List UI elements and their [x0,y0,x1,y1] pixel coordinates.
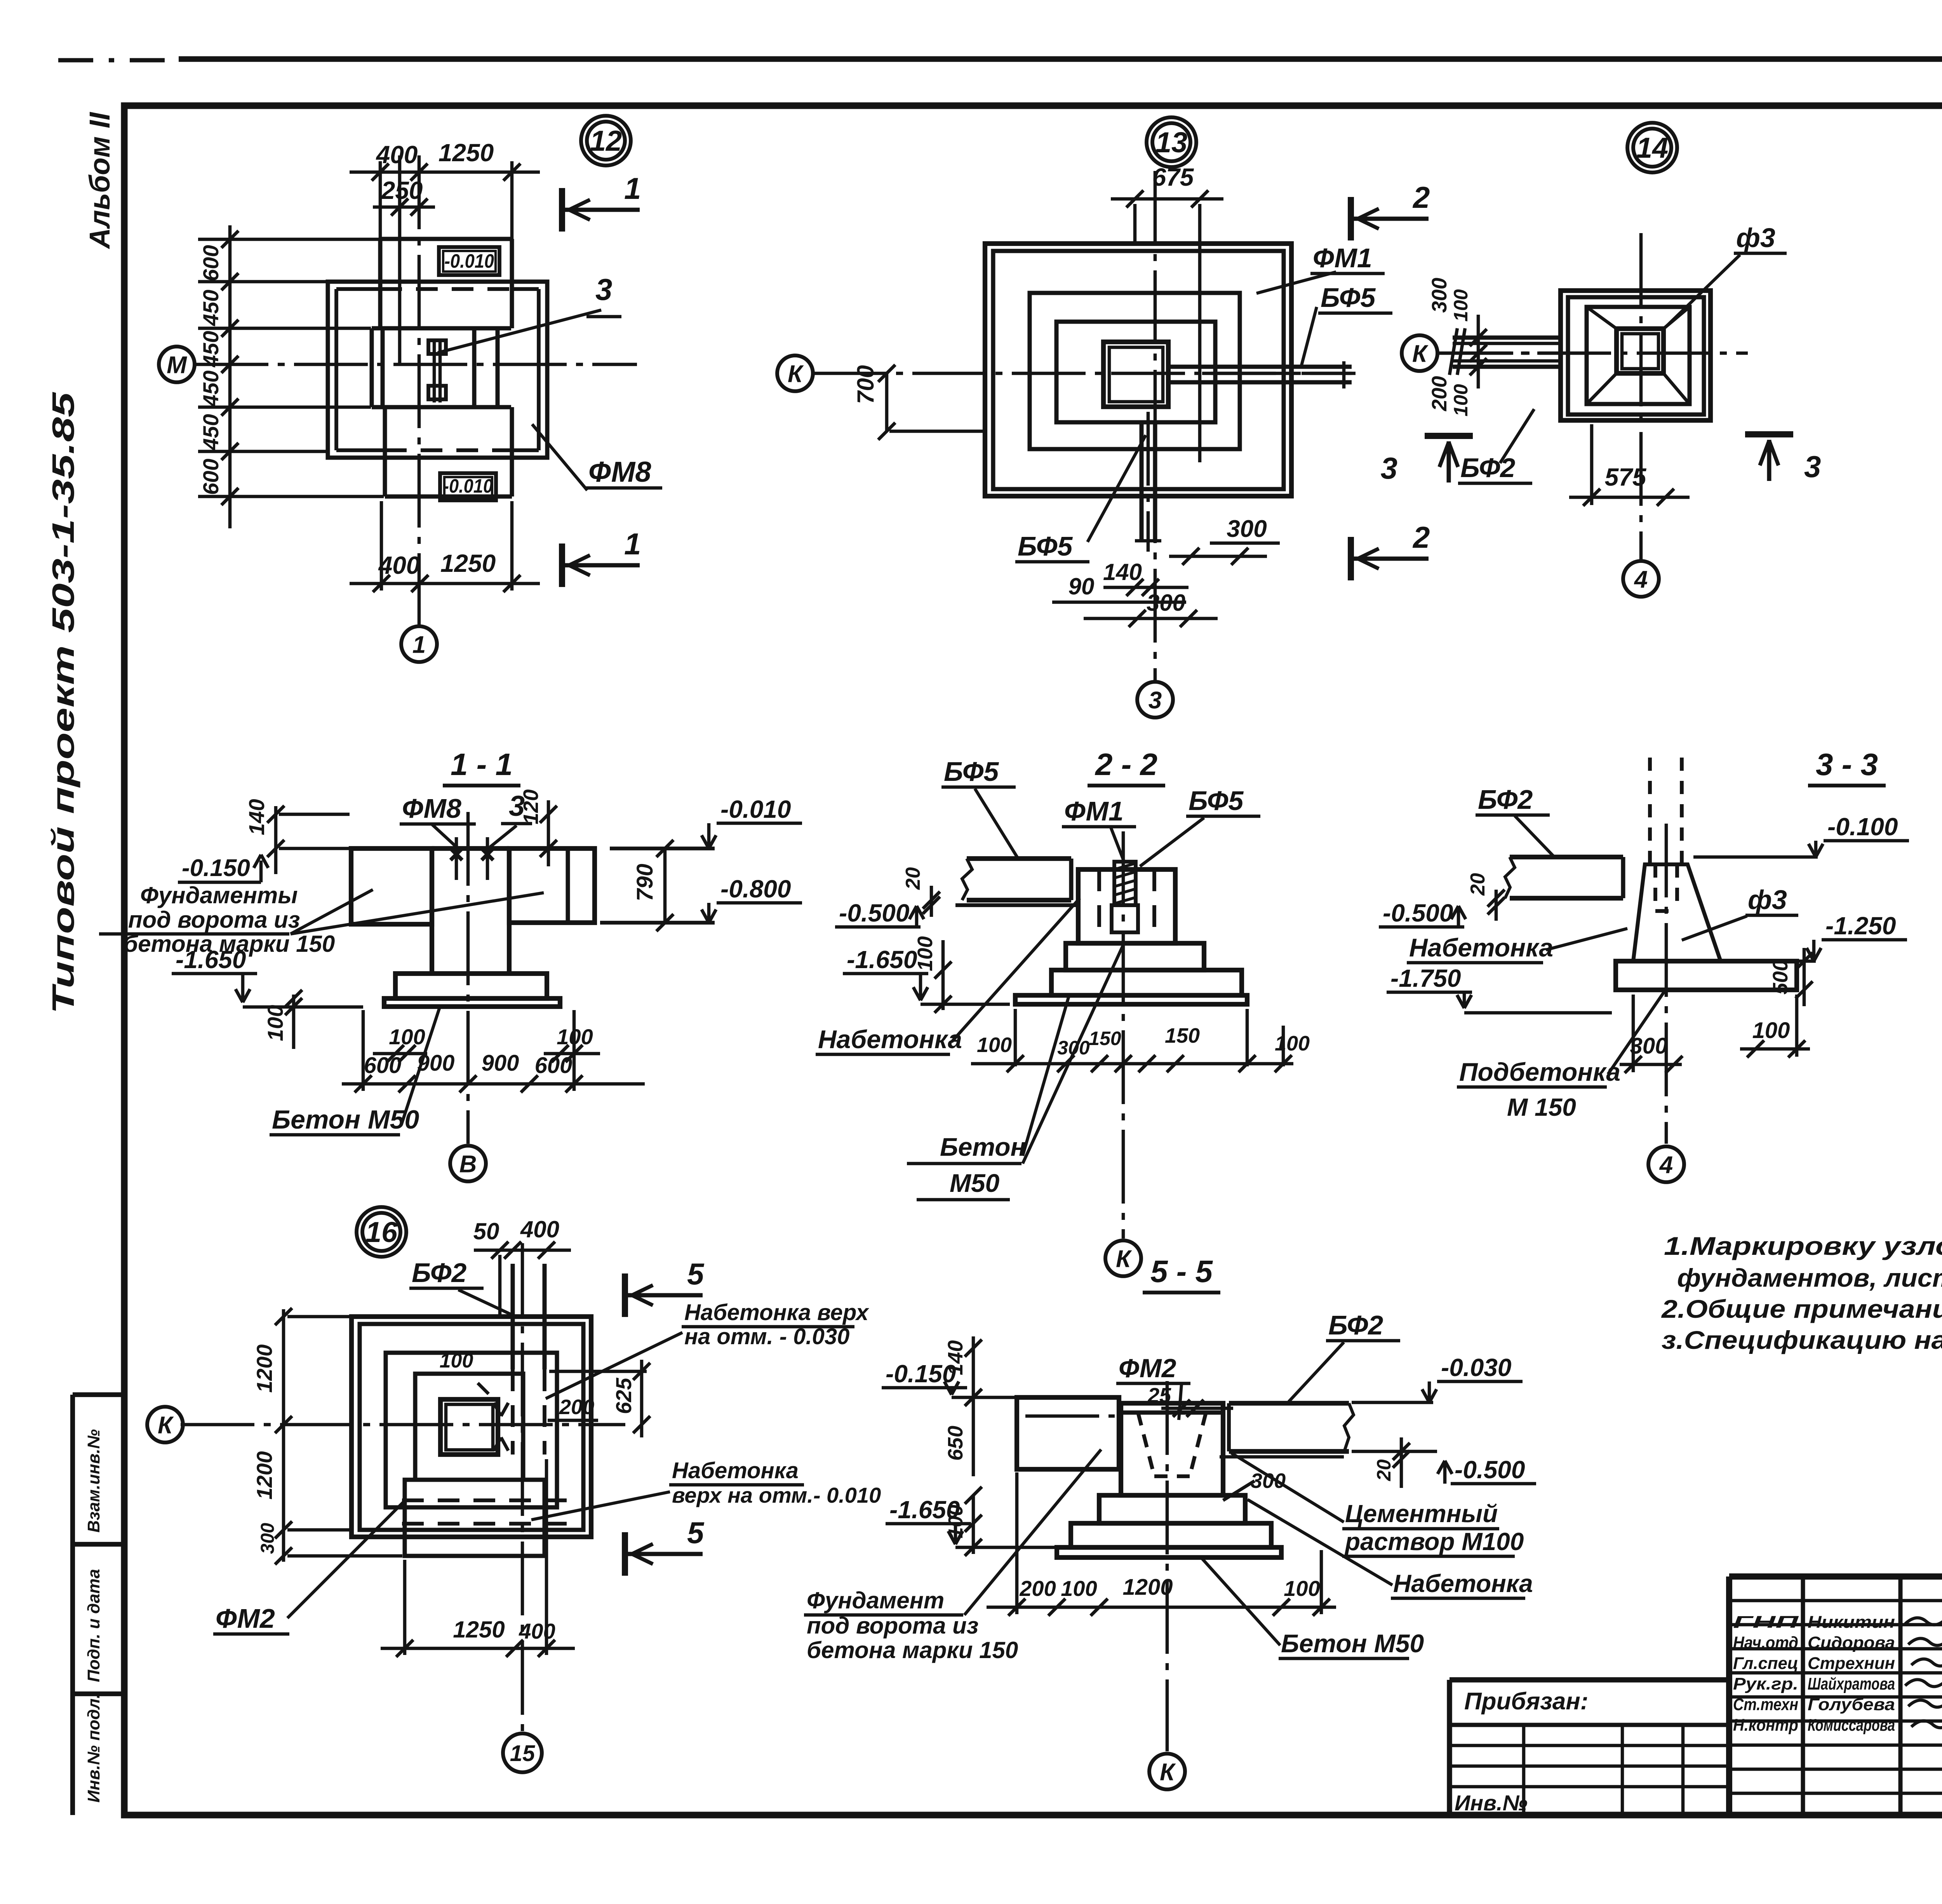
node 13 section mark 2 bottom [1348,537,1354,580]
node 16 axis 15 circle [503,1733,542,1772]
svg-text:К: К [1116,1246,1132,1272]
svg-text:-1.750: -1.750 [1390,964,1461,992]
svg-text:Рук.гр.: Рук.гр. [1733,1674,1798,1693]
svg-text:-0.500: -0.500 [839,899,909,927]
section 1-1 anchor bolts ФМ8 [451,848,462,860]
svg-text:бетона марки 150: бетона марки 150 [807,1637,1018,1663]
node 12 middle band [372,326,511,331]
section 5-5 socket dashed [1138,1413,1154,1476]
section 2-2 left beam БФ5 [967,856,1071,861]
node 14 pyramid diagonals [1587,307,1617,329]
svg-text:200: 200 [1428,376,1451,411]
section 1-1 left block [351,848,432,924]
svg-text:верх на отм.- 0.010: верх на отм.- 0.010 [672,1483,881,1507]
section 3-3 vertical axis [1665,824,1668,1144]
node 16 circle [357,1207,406,1257]
svg-text:БФ5: БФ5 [1321,282,1376,313]
section 2-2 step2 [1051,970,1242,995]
node 12 circle [581,116,631,165]
node 12 top -0.010 level box [439,247,499,275]
node 16 column square [440,1399,498,1455]
svg-text:1200: 1200 [252,1344,277,1393]
node 12 bottom gate plate [383,407,387,496]
title block outline [1729,1573,1942,1580]
node 16 vertical beam БФ2 [511,1264,515,1369]
section 2-2 step1 [1066,943,1204,970]
svg-text:5: 5 [687,1516,705,1550]
node 13 vertical axis [1154,171,1157,682]
svg-text:15: 15 [510,1741,535,1766]
svg-text:120: 120 [519,789,543,824]
svg-text:100: 100 [1284,1576,1320,1601]
svg-text:К: К [1160,1759,1176,1786]
svg-text:100: 100 [263,1005,287,1041]
svg-text:ФМ8: ФМ8 [402,793,461,824]
node 13 section mark 2 top [1348,197,1354,240]
svg-text:Подбетонка: Подбетонка [1459,1057,1620,1086]
svg-text:450: 450 [198,290,223,326]
svg-text:300: 300 [1428,278,1451,313]
svg-text:1 - 1: 1 - 1 [451,747,513,782]
svg-text:-0.800: -0.800 [720,875,791,903]
svg-text:1250: 1250 [453,1617,505,1643]
svg-text:-0.030: -0.030 [1441,1354,1511,1381]
svg-text:500: 500 [1769,960,1792,995]
section 1-1 step [395,974,547,998]
svg-text:Набетонка: Набетонка [818,1025,962,1054]
svg-text:Цементный: Цементный [1345,1500,1498,1528]
svg-text:Набетонка: Набетонка [1409,933,1553,962]
node 14 left beam БФ2 [1453,336,1562,340]
node 12 ФМ8 leader [532,424,587,490]
svg-text:600: 600 [535,1053,573,1078]
node 13 column square [1103,342,1168,407]
section 5-5 step1 [1099,1495,1245,1523]
svg-text:-1.650: -1.650 [176,946,246,974]
svg-text:200: 200 [1019,1576,1056,1601]
node 14 column square [1617,329,1664,373]
svg-text:Бетон М50: Бетон М50 [272,1105,419,1134]
section 3-3 bottom slab [1616,961,1797,990]
sheet top edge line [58,58,179,63]
node 12 outer foundation ФМ8 double rect [328,282,547,458]
svg-text:1200: 1200 [1122,1575,1173,1600]
svg-text:100: 100 [945,1505,967,1538]
svg-text:575: 575 [1605,463,1647,491]
node 14 БФ2 label [1500,409,1534,463]
svg-text:1250: 1250 [439,139,494,167]
svg-text:Нач.отд: Нач.отд [1733,1633,1798,1652]
node 12 section mark 1 bottom [559,544,565,587]
привязан table [1450,1677,1729,1682]
node 14 section mark 3 right [1745,431,1793,437]
svg-text:20: 20 [1373,1459,1395,1481]
svg-text:В: В [459,1151,477,1178]
svg-text:100: 100 [1450,289,1472,322]
svg-text:300: 300 [1147,590,1185,616]
svg-text:3: 3 [1381,451,1397,485]
svg-text:100: 100 [977,1033,1012,1057]
svg-text:БФ2: БФ2 [1328,1310,1383,1340]
svg-text:Инв.№ подл.: Инв.№ подл. [84,1694,103,1803]
section 5-5 bottom slab [1057,1547,1281,1557]
svg-text:фундаментов, лист 6.: фундаментов, лист 6. [1677,1263,1942,1292]
svg-text:20: 20 [1467,873,1489,896]
svg-text:Подп. и дата: Подп. и дата [84,1569,103,1682]
svg-text:ФМ8: ФМ8 [588,456,651,488]
section 3-3 beam БФ2 [1510,855,1623,859]
svg-text:400: 400 [378,551,420,579]
svg-text:Никитин: Никитин [1808,1613,1895,1632]
section 2-2 anchor ФМ1 hatched [1114,862,1136,905]
svg-text:ФМ2: ФМ2 [1119,1354,1176,1383]
svg-text:4: 4 [1659,1151,1673,1178]
node 13 outer double rect ФМ1 [985,244,1291,496]
svg-text:140: 140 [244,799,269,835]
signature table columns [1801,1577,1805,1815]
svg-text:з.Спецификацию на поз.3 см.: з.Спецификацию на поз.3 см. на листе 7. [1662,1326,1942,1354]
node 13 БФ5 label bottom [1088,435,1146,542]
signature table rows [1729,1599,1942,1603]
svg-text:Типовой проект 503-1-35.85: Типовой проект 503-1-35.85 [46,392,80,1014]
node 14 circle [1627,123,1677,172]
node 14 pyramid rect [1587,307,1690,404]
svg-text:М: М [167,352,187,378]
svg-text:Альбом II: Альбом II [84,112,116,249]
node 12 left dimension chain [228,225,232,528]
section 1-1 right block [509,848,595,923]
section 5-5 vertical axis [1166,1381,1169,1751]
svg-text:1: 1 [412,631,426,658]
svg-text:400: 400 [519,1619,555,1643]
svg-text:300: 300 [1227,516,1267,542]
node 16 left dims 1200 1200 300 [282,1309,285,1562]
svg-text:90: 90 [1068,573,1095,599]
node 16 rect3 [415,1374,523,1480]
svg-text:1200: 1200 [252,1451,277,1500]
svg-text:Стрехнин: Стрехнин [1808,1654,1895,1673]
node 16 bottom protrusion набетонка [405,1480,545,1556]
svg-text:-0.010: -0.010 [443,475,493,497]
svg-text:250: 250 [381,176,423,204]
svg-text:Прибязан:: Прибязан: [1464,1688,1588,1715]
svg-text:Взам.инв.№: Взам.инв.№ [84,1429,103,1533]
svg-text:-0.500: -0.500 [1455,1456,1525,1484]
node 13 middle rect [1030,293,1240,449]
node 14 vertical axis [1639,233,1643,559]
svg-text:2.Общие примечания к фундам: 2.Общие примечания к фундаментам см. лис… [1661,1294,1942,1323]
section 5-5 bottom dims [987,1606,1336,1609]
svg-text:625: 625 [611,1378,636,1414]
svg-text:100: 100 [914,936,937,971]
svg-text:450: 450 [198,414,223,451]
svg-text:600: 600 [198,459,223,495]
node 12 anchor bolts item 3 [428,340,446,354]
svg-text:140: 140 [1103,559,1142,585]
svg-text:БФ5: БФ5 [1189,786,1244,816]
svg-text:700: 700 [853,365,879,404]
svg-text:675: 675 [1152,163,1194,191]
node 13 ФМ1 label [1256,272,1336,293]
svg-text:450: 450 [198,331,223,368]
svg-text:ГНП: ГНП [1733,1613,1799,1632]
svg-text:790: 790 [632,864,658,901]
svg-text:1: 1 [624,527,641,561]
node 13 circle [1147,117,1196,167]
svg-text:1250: 1250 [440,549,496,577]
svg-text:Гл.спец: Гл.спец [1733,1654,1798,1673]
svg-text:ФМ2: ФМ2 [216,1603,275,1634]
node 14 left dims 300/100/200/100 [1477,315,1480,388]
svg-text:900: 900 [482,1050,519,1076]
section 5-5 step2 [1071,1523,1271,1547]
node 16 section mark 5 bottom [622,1532,628,1576]
svg-text:Бетон М50: Бетон М50 [1281,1629,1424,1658]
svg-text:Сидорова: Сидорова [1808,1633,1895,1652]
svg-text:ФМ1: ФМ1 [1064,796,1124,826]
section 2-2 bottom dims [971,1062,1293,1066]
svg-text:450: 450 [198,371,223,407]
svg-text:ф3: ф3 [1736,223,1775,253]
svg-text:БФ2: БФ2 [412,1258,466,1288]
svg-text:4: 4 [1634,566,1648,593]
svg-text:-0.500: -0.500 [1383,899,1453,927]
section 1-1 vertical axis [466,812,470,1144]
left margin stamp column [70,1395,75,1815]
svg-text:14: 14 [1636,132,1668,164]
node 12 vertical axis line [418,155,421,626]
node 16 section mark 5 top [622,1273,628,1317]
svg-text:под ворота из: под ворота из [128,907,300,933]
svg-text:-0.150: -0.150 [182,855,250,881]
svg-text:400: 400 [520,1216,559,1242]
svg-text:К: К [158,1412,174,1439]
svg-text:раствор М100: раствор М100 [1344,1528,1524,1556]
svg-text:100: 100 [1061,1576,1097,1601]
svg-text:-0.010: -0.010 [444,250,494,272]
svg-text:Фундамент: Фундамент [807,1587,944,1613]
node 14 outer double rect [1561,291,1711,420]
svg-text:2: 2 [1412,180,1430,214]
svg-text:3: 3 [595,272,612,307]
svg-text:Инв.№: Инв.№ [1455,1791,1528,1815]
node 16 outer double rect [352,1317,591,1537]
svg-text:20: 20 [902,867,924,890]
node 12 top gate plate [380,237,512,241]
svg-text:Набетонка верх: Набетонка верх [684,1300,870,1325]
node 13 right beam БФ5 [1168,365,1352,369]
node 12 bottom dimension 400/1250 [350,582,540,585]
svg-text:М50: М50 [950,1169,1000,1197]
svg-text:100: 100 [1752,1018,1790,1043]
node 12 horizontal axis М line [195,363,637,366]
svg-text:25: 25 [1147,1384,1171,1407]
node 12 top dimension 400/1250 [350,171,540,174]
section 1-1 central pier [430,848,434,974]
svg-text:2 - 2: 2 - 2 [1095,747,1157,782]
svg-text:-0.100: -0.100 [1827,813,1898,841]
svg-text:2: 2 [1412,520,1430,554]
section 3-3 pier Ф3 trapezoid [1633,864,1721,961]
svg-text:Набетонка: Набетонка [1393,1570,1533,1597]
svg-text:БФ2: БФ2 [1460,453,1515,483]
svg-text:3: 3 [1148,687,1162,714]
svg-text:3 - 3: 3 - 3 [1816,747,1878,782]
svg-text:5: 5 [687,1257,705,1291]
svg-text:650: 650 [944,1426,967,1461]
node 13 БФ5 label right [1301,307,1317,367]
svg-text:-0.010: -0.010 [720,795,791,823]
node 16 rect2 [386,1353,557,1507]
svg-text:100: 100 [440,1350,473,1372]
svg-text:Комиссарова: Комиссарова [1808,1716,1895,1735]
svg-text:ф3: ф3 [1748,885,1787,915]
svg-text:50: 50 [473,1218,499,1244]
section 5-5 left block [1017,1397,1119,1469]
section 2-2 central pier [1078,869,1175,943]
section 1-1 bottom slab [384,998,560,1007]
svg-text:ФМ1: ФМ1 [1313,243,1372,273]
svg-text:300: 300 [258,1523,278,1554]
node 12 axis М circle [159,347,195,382]
node 12 bottom -0.010 level box [440,473,496,500]
svg-text:100: 100 [389,1024,425,1049]
svg-text:Ст.техн: Ст.техн [1733,1695,1798,1714]
node 12 top dimension 250 [373,206,435,209]
svg-text:1: 1 [624,171,641,206]
svg-text:Голубева: Голубева [1808,1695,1895,1714]
svg-text:100: 100 [1450,384,1472,416]
svg-text:-1.650: -1.650 [847,946,917,974]
svg-text:600: 600 [198,245,223,281]
node 12 item 3 leader [438,310,601,353]
node 16 horizontal axis К [181,1423,625,1427]
node 14 ф3 label [1664,255,1740,328]
svg-text:150: 150 [1089,1028,1121,1049]
node 14 horizontal axis К [1438,352,1748,355]
node 14 section mark 3 left [1425,433,1473,439]
svg-text:Фундаменты: Фундаменты [140,882,298,908]
svg-text:100: 100 [1275,1032,1310,1055]
svg-text:300: 300 [1630,1033,1668,1059]
node 13 inner rect [1056,322,1215,422]
svg-text:М 150: М 150 [1507,1093,1576,1121]
svg-text:К: К [788,361,804,387]
svg-text:13: 13 [1155,126,1187,159]
svg-text:200: 200 [559,1395,594,1419]
section 1-1 bottom dim chain [342,1082,614,1086]
svg-text:1.Маркировку узлов смотри н: 1.Маркировку узлов смотри на схеме распо… [1664,1232,1942,1260]
node 13 bottom beam БФ5 [1140,422,1144,541]
node 12 section mark 1 top [559,188,565,232]
svg-text:БФ5: БФ5 [1018,531,1073,561]
svg-text:-1.250: -1.250 [1825,912,1896,940]
svg-text:300: 300 [1251,1469,1286,1493]
svg-text:Бетон: Бетон [940,1132,1026,1161]
svg-text:600: 600 [364,1053,402,1078]
svg-text:Шайхратова: Шайхратова [1808,1674,1895,1693]
node 16 vertical axis [521,1243,524,1733]
section 2-2 vertical axis [1122,831,1125,1239]
svg-text:БФ5: БФ5 [944,756,999,787]
section 2-2 bottom slab [1015,995,1247,1004]
svg-text:3: 3 [1804,449,1821,484]
section 5-5 central pier [1121,1403,1223,1495]
section 5-5 right beam БФ2 [1229,1401,1349,1406]
node 13 horizontal axis К [813,372,1352,375]
node 12 axis 1 circle [401,626,437,662]
node 13 axis 3 circle [1137,682,1173,718]
svg-text:Н.контр: Н.контр [1733,1716,1798,1735]
svg-text:БФ2: БФ2 [1478,784,1533,815]
svg-text:5 - 5: 5 - 5 [1150,1254,1213,1289]
svg-text:16: 16 [365,1216,398,1248]
svg-text:К: К [1412,340,1429,367]
svg-text:150: 150 [1165,1024,1200,1047]
svg-text:12: 12 [590,125,622,157]
svg-text:Набетонка: Набетонка [672,1458,799,1483]
